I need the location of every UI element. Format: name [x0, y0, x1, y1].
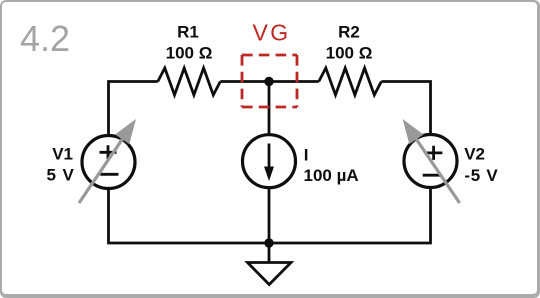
svg-text:4.2: 4.2 [20, 18, 70, 59]
variable-source arrow (V1) [79, 119, 136, 203]
svg-text:100 Ω: 100 Ω [326, 44, 373, 63]
wire: node VG down to current source I [268, 82, 271, 135]
svg-text:I: I [304, 146, 309, 165]
svg-text:V2: V2 [464, 144, 485, 163]
svg-text:V1: V1 [52, 145, 73, 164]
svg-text:5 V: 5 V [47, 166, 75, 185]
wire: R1 right to node VG [220, 80, 269, 83]
voltage source V2 [404, 135, 457, 188]
svg-text:R1: R1 [177, 23, 199, 42]
VG probe dashed box [242, 55, 297, 107]
wire: current source I to bottom node [268, 188, 271, 243]
wire: V1 top to R1 left (left vertical + top-left horizontal) [109, 82, 158, 137]
svg-text:100 µA: 100 µA [304, 166, 359, 185]
wire: V1 bottom to bottom node [109, 189, 270, 244]
resistor R2 [319, 68, 382, 95]
svg-text:VG: VG [252, 20, 290, 46]
wire: bottom node to V2 bottom [269, 188, 431, 244]
svg-text:R2: R2 [338, 23, 360, 42]
resistor R1 [158, 68, 221, 95]
node B (bottom junction) [264, 238, 273, 247]
wire: node VG to R2 left [269, 80, 319, 83]
wire: R2 right to V2 top (top-right horizontal + right vertical) [381, 82, 430, 135]
svg-text:-5 V: -5 V [464, 166, 498, 185]
voltage source V1 [82, 136, 135, 189]
svg-text:100 Ω: 100 Ω [166, 44, 213, 63]
current source I [243, 135, 296, 188]
node A (top junction) [264, 77, 273, 86]
wire: bottom node to ground [268, 243, 271, 262]
ground [248, 263, 292, 285]
variable-source arrow (V2) [403, 119, 460, 203]
